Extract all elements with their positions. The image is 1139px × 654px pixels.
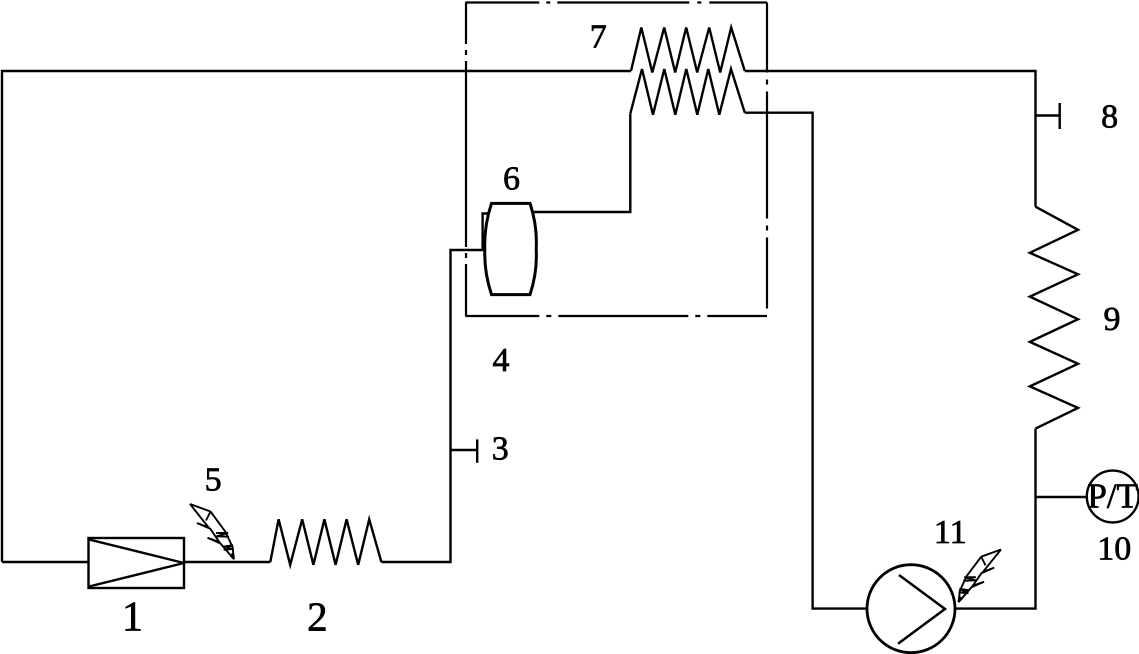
svg-text:4: 4	[493, 342, 510, 379]
svg-text:8: 8	[1101, 98, 1118, 135]
svg-text:6: 6	[503, 160, 520, 197]
svg-text:7: 7	[590, 18, 607, 55]
svg-text:2: 2	[307, 594, 328, 640]
svg-text:10: 10	[1097, 531, 1131, 568]
svg-text:1: 1	[122, 595, 143, 641]
svg-text:3: 3	[492, 430, 509, 467]
svg-text:P/T: P/T	[1087, 477, 1138, 516]
svg-text:5: 5	[205, 461, 222, 498]
svg-text:9: 9	[1104, 301, 1121, 338]
svg-text:11: 11	[934, 514, 967, 551]
